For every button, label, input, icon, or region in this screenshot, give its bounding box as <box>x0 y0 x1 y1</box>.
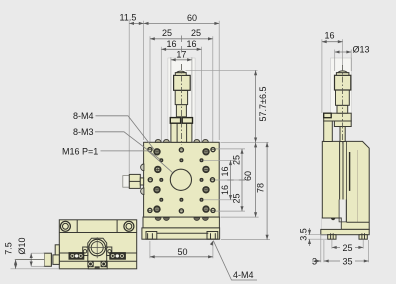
bottom edge bump 2 <box>164 218 170 221</box>
wing circle left <box>83 250 86 253</box>
knob cap dome side <box>338 71 348 73</box>
center hole M16 <box>170 169 191 190</box>
svg-text:16: 16 <box>220 185 230 195</box>
knob <box>174 75 191 90</box>
ext knob dia right <box>350 50 352 72</box>
svg-text:16: 16 <box>324 31 334 41</box>
ext front face <box>321 39 323 113</box>
ext 60 bottom <box>221 216 259 218</box>
gap under front plate <box>322 218 342 229</box>
M4 hole r3c1 <box>153 186 160 193</box>
lock nut left <box>170 118 180 124</box>
extension line 17 right <box>191 57 193 122</box>
spindle <box>340 127 345 142</box>
bracket tab <box>324 113 332 118</box>
right wing <box>107 247 112 256</box>
plan knob neck <box>53 255 59 265</box>
dim 16|16 right chain <box>230 160 232 200</box>
svg-text:3.5: 3.5 <box>299 228 309 241</box>
bracket leg <box>324 121 333 142</box>
faint body line <box>357 150 359 222</box>
step line full width <box>59 232 136 234</box>
ext 3 left <box>320 235 322 262</box>
dim 25|25 right chain <box>241 149 243 211</box>
extension line face right <box>218 21 220 140</box>
svg-text:Ø10: Ø10 <box>17 237 27 254</box>
base band <box>143 217 219 228</box>
knob side <box>335 75 351 90</box>
extension line col 25 right <box>212 36 214 146</box>
svg-text:25: 25 <box>231 155 241 165</box>
extension line 11.5 left <box>128 21 130 174</box>
ringed hole bc <box>179 208 185 214</box>
svg-text:8-M3: 8-M3 <box>73 127 94 137</box>
slot gap lower white <box>339 200 346 222</box>
top edge bump 2 <box>164 139 170 142</box>
ext knob dia left <box>334 50 336 72</box>
bottom edge bump 4 <box>203 218 209 221</box>
ringed hole tr <box>210 147 216 153</box>
ringed hole br <box>210 208 216 214</box>
base plate <box>321 229 369 234</box>
back plate slot shadow <box>349 152 351 191</box>
bracket arm <box>324 113 352 121</box>
left foot <box>328 235 336 240</box>
bottom tab sq hole 2 <box>101 261 107 267</box>
svg-text:60: 60 <box>243 171 253 181</box>
slot line b <box>342 141 344 218</box>
left group white dot <box>75 254 78 257</box>
ext stage top right long <box>221 141 269 143</box>
right hole group box <box>109 252 126 260</box>
M3 hole 3 <box>159 178 163 182</box>
M4 hole r3c2 <box>202 186 209 193</box>
svg-text:M16 P=1: M16 P=1 <box>62 147 98 157</box>
axis centerline side <box>342 65 344 145</box>
stage face plate <box>144 142 220 217</box>
ringed hole tc <box>179 147 185 153</box>
dim Ø10 line <box>30 253 32 266</box>
M3 hole 2 <box>200 158 204 162</box>
knob cap dome <box>176 71 185 72</box>
ext plan bottom <box>11 268 60 270</box>
dim Ø10 ext bottom <box>31 265 44 267</box>
ringed hole bl <box>147 208 153 214</box>
svg-text:16: 16 <box>166 39 176 49</box>
side lock knob white cap <box>123 176 130 188</box>
left foot hole <box>147 233 149 239</box>
svg-text:35: 35 <box>342 257 352 267</box>
bottom edge bump 1 <box>155 218 161 221</box>
dim 25 side <box>332 246 363 248</box>
M4 hole r4c1 <box>153 205 160 212</box>
left wing <box>83 247 88 256</box>
center big circle outer <box>89 239 106 256</box>
knob cap lip side <box>336 73 349 76</box>
leader 8-M4 <box>96 116 155 150</box>
svg-text:25: 25 <box>231 193 241 203</box>
extension line face left <box>143 21 145 140</box>
dim 16|16 top <box>161 48 201 50</box>
svg-text:4-M4: 4-M4 <box>233 270 254 280</box>
lock nut right <box>182 118 192 124</box>
M3 hole 6 <box>200 198 204 202</box>
right foot hole <box>361 233 363 239</box>
ext 35 left <box>323 240 325 262</box>
dim 60 right <box>255 142 257 217</box>
left group hole 1 <box>70 253 76 259</box>
M3 hole 5 <box>159 198 163 202</box>
front plate bottom edge <box>322 218 342 229</box>
clamp under arm <box>334 121 351 127</box>
sleeve side <box>337 105 348 113</box>
top edge bump 3 <box>194 139 200 142</box>
svg-text:25: 25 <box>342 243 352 253</box>
M3 hole 1 <box>159 158 163 162</box>
svg-text:25: 25 <box>191 28 201 38</box>
right group hole 2 <box>119 253 125 259</box>
left edge bump upper <box>141 164 144 171</box>
svg-text:25: 25 <box>162 28 172 38</box>
ext 35 right <box>368 240 370 262</box>
band line lower <box>59 260 136 262</box>
svg-text:8-M4: 8-M4 <box>73 111 94 121</box>
dim 60 top <box>144 22 220 24</box>
white halo behind side micrometer <box>331 58 352 113</box>
knob axis line <box>15 259 44 261</box>
svg-text:3: 3 <box>312 257 317 267</box>
wing circle right <box>108 250 111 253</box>
bottom plate <box>142 228 220 239</box>
top edge bump 1 <box>155 139 161 142</box>
bottom tab sq hole 1 <box>87 261 93 267</box>
left foot <box>146 232 157 240</box>
dim 57.7±6.5 <box>255 70 257 142</box>
dim 25|25 top <box>150 38 213 40</box>
svg-text:60: 60 <box>187 13 197 23</box>
right side row extension lines <box>216 148 245 150</box>
thimble side <box>336 90 350 105</box>
band line upper <box>59 252 136 254</box>
extension line col 16 left <box>160 47 162 157</box>
Ø10 white box <box>31 253 44 266</box>
dim 78 right <box>266 142 268 239</box>
leader 8-M3 <box>95 132 160 159</box>
M4 hole r4c2 <box>202 205 209 212</box>
stage body side <box>322 141 369 229</box>
thimble <box>175 90 187 104</box>
micrometer clamp block <box>171 123 192 143</box>
dim 3 <box>312 260 321 262</box>
leader 4-M4 <box>213 241 257 280</box>
left foot hole <box>330 233 332 239</box>
extension line col 25 left <box>149 36 151 146</box>
top edge bump 4 <box>203 139 209 142</box>
M3 hole 7 <box>179 158 183 162</box>
recess line between feet <box>157 232 209 234</box>
side knob neck <box>140 178 143 185</box>
extension line 17 left <box>170 57 172 122</box>
dim 3.5 <box>309 228 311 235</box>
svg-text:Ø13: Ø13 <box>353 45 370 55</box>
right group hole 1 <box>110 253 116 259</box>
left group hole 2 <box>78 253 84 259</box>
svg-text:7.5: 7.5 <box>4 242 14 255</box>
axis centerline <box>180 64 182 145</box>
side knob midline <box>129 180 140 182</box>
sleeve <box>176 105 186 117</box>
dim 50 <box>150 256 213 258</box>
slot line a <box>339 141 341 218</box>
ringed hole mr <box>210 177 216 183</box>
center block <box>88 238 107 261</box>
svg-text:11.5: 11.5 <box>120 12 137 22</box>
front plate bottom notch <box>331 218 335 220</box>
corner counterbore right <box>124 221 134 231</box>
dim Ø13 <box>335 51 352 53</box>
top recess left line <box>76 220 78 233</box>
ext axis <box>342 39 344 66</box>
center big circle inner <box>91 242 103 254</box>
svg-text:50: 50 <box>177 247 187 257</box>
right foot <box>207 232 218 240</box>
svg-text:78: 78 <box>256 183 266 193</box>
dim 17 top <box>171 59 192 61</box>
ext 78 bottom <box>221 239 270 241</box>
leader M16 <box>101 151 173 173</box>
left hole group box <box>69 252 85 260</box>
back plate front edge <box>346 141 348 222</box>
svg-text:57.7±6.5: 57.7±6.5 <box>258 87 268 122</box>
ext feet hole right <box>362 240 364 249</box>
right foot hole <box>210 233 212 239</box>
dim 35 <box>324 260 369 262</box>
top recess right line <box>116 220 118 233</box>
back plate joint line <box>347 221 370 223</box>
dim 7.5 <box>15 260 17 269</box>
knob separator <box>50 254 52 266</box>
M4 hole r2c1 <box>154 166 161 173</box>
ext feet hole left <box>331 240 333 249</box>
dim 16 side <box>322 41 343 43</box>
crosshair h <box>87 247 109 249</box>
slot gap lower edges <box>339 200 346 222</box>
svg-text:17: 17 <box>176 50 186 60</box>
M4 hole r2c2 <box>202 166 209 173</box>
crosshair v <box>96 237 98 258</box>
knob cap lip <box>175 73 186 76</box>
bottom tab <box>88 261 107 269</box>
white halo behind micrometer <box>168 58 195 142</box>
svg-text:16: 16 <box>220 166 230 176</box>
ringed hole tl <box>147 147 153 153</box>
plan body <box>59 220 136 269</box>
left edge tab <box>55 245 59 256</box>
plan knob <box>44 253 51 266</box>
ext 50 left <box>149 241 151 258</box>
M3 hole 4 <box>200 178 204 182</box>
ext 50 right <box>212 241 214 258</box>
ext 3.5 upper <box>308 234 327 236</box>
M4 hole r1c1 <box>153 148 160 155</box>
ext knob top for 57.7 <box>186 69 258 71</box>
dim 11.5 <box>129 22 143 24</box>
side lock knob big <box>129 174 140 188</box>
ringed hole ml <box>148 177 154 183</box>
dim Ø10 ext top <box>31 252 44 254</box>
right group white dot <box>116 254 119 257</box>
corner counterbore left <box>60 221 70 231</box>
svg-text:16: 16 <box>186 39 196 49</box>
M3 hole 8 <box>179 198 183 202</box>
M4 hole r1c2 <box>202 148 209 155</box>
bottom edge bump 3 <box>194 218 200 221</box>
ext 3.5 lower <box>308 238 327 240</box>
right foot <box>359 235 367 240</box>
bottom tab slot <box>95 266 100 268</box>
left edge bump lower <box>141 188 144 195</box>
extension line col 16 right <box>201 47 203 157</box>
